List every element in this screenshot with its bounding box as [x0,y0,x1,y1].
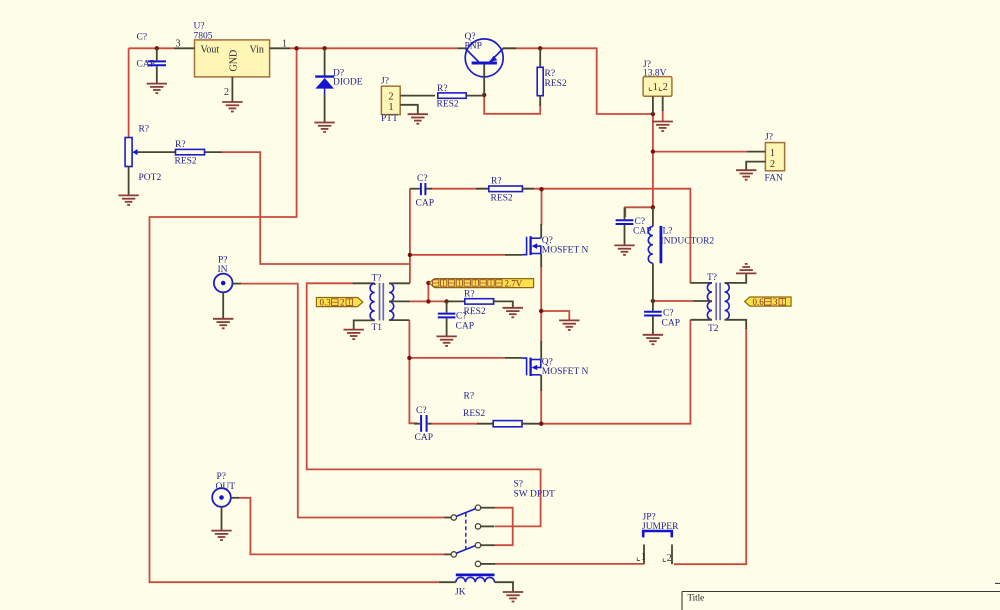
junction node Vout-C [155,46,159,50]
junction node bias tee [426,299,430,303]
svg-text:IN: IN [218,265,228,275]
svg-text:POT2: POT2 [139,173,162,183]
resistor R? RES2 bottom rail [463,392,540,427]
ground at JK [503,592,523,602]
junction node PNP base [482,93,486,97]
svg-text:0.3: 0.3 [320,298,332,308]
wire 13.8V rail to C and inductor node [625,207,653,217]
svg-text:⌞1: ⌞1 [648,82,658,93]
svg-text:RES2: RES2 [545,79,567,89]
junction node source2-bottom rail [539,422,543,426]
svg-text:JP?: JP? [643,513,656,523]
svg-text:L?: L? [663,227,673,237]
svg-text:3: 3 [773,297,778,307]
svg-text:U?: U? [194,22,205,32]
ground at T1 left bottom [344,330,364,340]
junction node T2 center tap [651,299,655,303]
connector J? FAN [746,133,784,184]
svg-text:RES2: RES2 [464,307,486,317]
junction node bias tag [426,281,430,285]
svg-text:Vin: Vin [250,45,264,56]
junction node source1 [539,309,543,313]
svg-text:7805: 7805 [194,32,213,42]
resistor R? RES2 at POT wiper [175,140,223,167]
svg-text:P?: P? [218,256,228,266]
svg-text:FAN: FAN [765,174,783,184]
resistor R? RES2 at PNP collector [537,48,567,106]
svg-text:JUMPER: JUMPER [642,522,679,532]
ground above T2 right top, inverted [736,264,756,274]
junction node Vin-down [294,46,298,50]
svg-text:⌞1: ⌞1 [636,552,646,563]
resistor R? RES2 bias [447,290,513,318]
svg-text:R?: R? [437,84,448,94]
resistor R? RES2 at PTT [437,84,485,110]
wire cap to resistor on drive rail [431,188,490,190]
wire OUT to switch pole2 [238,498,445,555]
svg-text:Q?: Q? [465,32,476,42]
svg-text:J?: J? [381,77,389,87]
connector J? PTT [381,77,435,125]
wire POT wiper via RES2 to MOSFET rail [222,152,410,264]
svg-text:MOSFET N: MOSFET N [542,367,589,377]
svg-text:R?: R? [491,177,502,187]
svg-text:MOSFET N: MOSFET N [542,246,589,256]
svg-text:DIODE: DIODE [333,78,363,88]
wire MOSFET2 source down [540,390,542,424]
junction node gate1 [408,253,412,257]
svg-text:C?: C? [416,406,427,416]
svg-text:S?: S? [514,480,524,490]
transistor Q? MOSFET N upper [505,224,588,267]
svg-text:C?: C? [137,33,148,43]
ground under C at T2 tap [643,335,663,345]
wire 13.8V vertical rail [652,114,654,207]
svg-text:RES2: RES2 [463,409,485,419]
svg-text:R?: R? [545,69,556,79]
wire T2 center tap [653,300,694,302]
svg-text:1: 1 [389,102,394,113]
svg-text:INDUCTOR2: INDUCTOR2 [661,237,715,247]
wire jumper pin2 to T2 right bottom [674,328,746,564]
svg-text:PNP: PNP [465,42,482,52]
svg-text:T2: T2 [708,324,719,334]
svg-text:1: 1 [282,39,287,50]
junction node gate2 [407,356,411,360]
svg-text:Q?: Q? [542,358,553,368]
capacitor C? on drive rail [410,174,434,209]
svg-text:⌞2: ⌞2 [658,82,668,93]
svg-text:2: 2 [340,298,345,308]
wire tag stub at bias node [427,283,429,302]
ground under 7805 [222,102,242,112]
wire bottom rail cap-res [430,423,478,425]
connector J? 13.8V [643,60,672,114]
wire T1 center tap to bias network [408,300,447,302]
wire left vertical to POT2 [128,48,130,137]
svg-text:P?: P? [217,472,227,482]
junction node drain1-res [539,187,543,191]
junction node FAN tap [651,149,655,153]
svg-text:J?: J? [765,133,773,143]
svg-text:C?: C? [417,174,428,184]
tag bias voltage 2.7V [429,279,533,289]
svg-text:RES2: RES2 [437,100,459,110]
capacitor C? at 13.8V node [616,207,652,245]
tag 0.3 wire 2 turns [316,298,362,308]
svg-text:⌞2: ⌞2 [662,553,672,564]
svg-text:3: 3 [176,39,181,50]
wire T1 left top to switch loop [307,283,541,526]
junction node C-inductor top [651,205,655,209]
wire PNP base bias loop [484,95,540,114]
svg-text:GND: GND [228,50,239,72]
wire throw1a to throw2a [494,508,513,546]
connector P? OUT [212,472,239,531]
svg-text:CAP: CAP [416,199,434,209]
svg-text:R?: R? [139,125,150,135]
svg-text:OUT: OUT [216,482,236,492]
svg-text:0.6: 0.6 [753,297,765,307]
wire vertical gate feed upper [409,189,411,284]
wire MOSFET1 drain [541,189,543,225]
svg-text:RES2: RES2 [491,194,513,204]
ground under IN [213,319,233,329]
svg-text:1: 1 [770,148,775,159]
svg-text:C?: C? [635,217,646,227]
svg-text:Q?: Q? [542,236,553,246]
svg-text:R?: R? [464,290,475,300]
svg-text:2: 2 [389,92,394,103]
svg-text:T1: T1 [372,323,383,333]
ground at bias resistor [503,308,523,318]
connector P? IN [214,256,241,319]
wire MOSFET1 gate [410,254,506,256]
svg-text:C?: C? [456,312,467,322]
capacitor C1 top-left [137,33,167,84]
wire PNP collector to 13.8V node [503,48,653,114]
wire drive rail to T2 left top [522,189,690,284]
diode D? [315,48,363,122]
title block [682,583,1000,610]
wire vertical gate feed lower [409,320,417,423]
svg-text:SW DPDT: SW DPDT [514,490,555,500]
wire Vin-node down, across, down left side to JK [150,48,439,582]
jumper JP? [636,513,679,565]
junction node collector-res [538,46,542,50]
ground at 13.8V pin2 [653,122,673,132]
capacitor C? bias [438,301,474,336]
wire MOSFET1 source down [540,266,542,311]
ground at FAN pin2 [736,170,756,180]
svg-text:C?: C? [663,309,674,319]
junction node 13.8V feed [651,112,655,116]
ground under diode [314,123,334,133]
svg-text:PTT: PTT [381,114,398,124]
ground under C at 13.8V node [614,245,634,255]
transistor Q? PNP [458,32,516,95]
capacitor C? at T2 center tap [644,301,680,335]
capacitor C? bottom rail [414,406,433,443]
inductor JK [439,575,513,598]
svg-text:T?: T? [372,274,382,284]
wire IN to switch pole1 [240,284,445,518]
wire bottom rail to T2 left bottom [541,320,690,424]
svg-text:CAP: CAP [137,60,155,70]
svg-text:2: 2 [770,159,775,170]
ground under POT2 [118,195,138,205]
svg-text:Title: Title [688,593,705,603]
transformer T? T1 [353,274,410,334]
wire Vin to PNP emitter [290,47,458,49]
svg-text:JK: JK [455,588,466,598]
wire MOSFET2 drain from junction [540,311,542,342]
ground at source1 node [559,320,579,330]
transformer T? T2 [690,273,746,334]
regulator U? 7805 [174,22,290,103]
ground at PTT pin1 [408,114,428,124]
wire MOSFET2 gate [409,357,505,359]
wire source junction to ground stub [541,311,569,320]
svg-text:13.8V: 13.8V [643,69,667,79]
switch S? SW DPDT [445,480,555,567]
svg-text:2.7V: 2.7V [505,279,523,289]
svg-text:R?: R? [175,140,186,150]
svg-text:T?: T? [707,273,717,283]
ground under OUT [211,531,231,541]
potentiometer R? POT2 [125,125,175,196]
svg-text:RES2: RES2 [175,157,197,167]
wire 13.8V conn pin2 stub [662,110,664,122]
inductor L? INDUCTOR2 [648,207,714,301]
junction node diode tap [322,46,326,50]
svg-text:2: 2 [224,87,229,98]
junction node bias cap [444,299,448,303]
wire top rail from C to 7805 pin3 [129,47,174,49]
svg-text:Vout: Vout [201,45,220,56]
wire throw2b to jumper pin1 [495,563,645,565]
tag 0.6 wire 3 turns [745,297,792,307]
wire to FAN pin1 [653,151,747,153]
resistor R? RES2 on drive rail [476,177,534,204]
ground at bias capacitor [436,336,456,346]
transistor Q? MOSFET N lower [505,341,588,391]
svg-text:CAP: CAP [662,319,680,329]
svg-text:CAP: CAP [456,322,474,332]
svg-text:R?: R? [464,392,475,402]
ground under C1 [147,84,167,94]
svg-text:CAP: CAP [415,433,433,443]
